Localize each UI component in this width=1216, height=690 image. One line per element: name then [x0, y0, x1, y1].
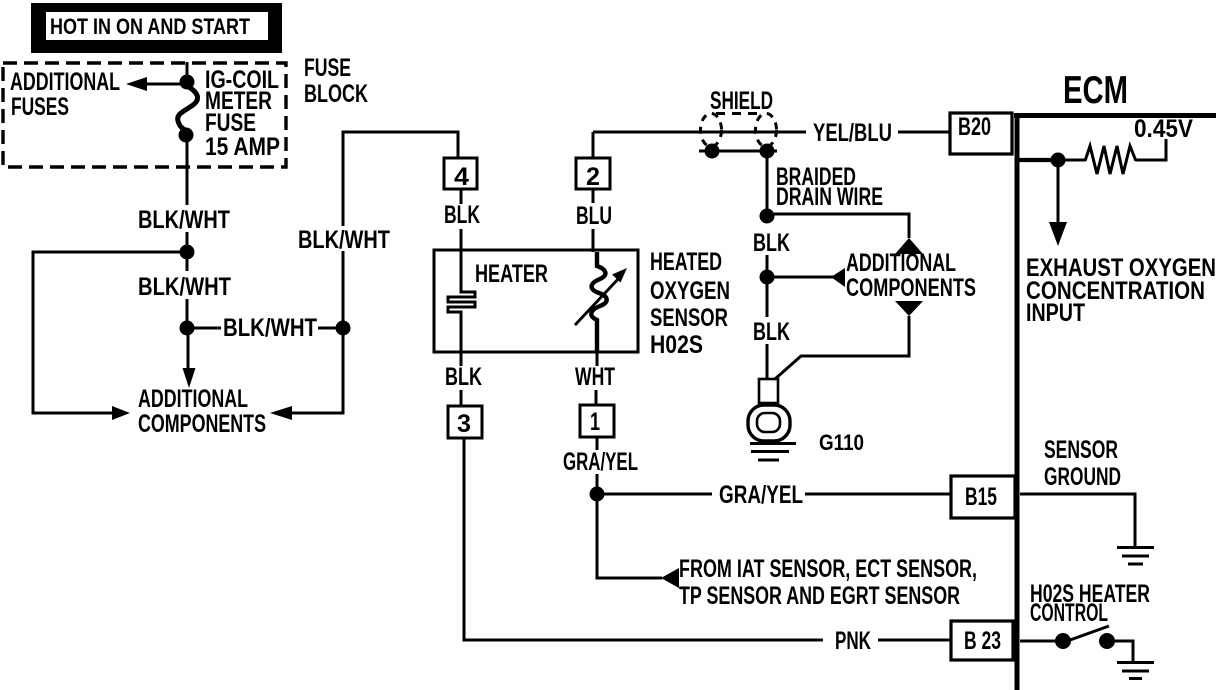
svg-text:SHIELD: SHIELD: [710, 87, 773, 115]
svg-text:B20: B20: [958, 113, 991, 141]
svg-text:BLU: BLU: [576, 202, 612, 230]
heater element: [448, 252, 475, 352]
svg-text:SENSOR: SENSOR: [650, 304, 728, 332]
svg-text:0.45V: 0.45V: [1134, 115, 1193, 143]
wire pin2 down: [592, 189, 595, 203]
arrow FROM IAT sensors: [661, 568, 679, 588]
svg-text:FROM IAT SENSOR, ECT SENSOR,: FROM IAT SENSOR, ECT SENSOR,: [679, 555, 977, 583]
label ADDITIONAL FUSES: [10, 68, 120, 121]
svg-text:YEL/BLU: YEL/BLU: [813, 119, 892, 147]
svg-text:ADDITIONAL: ADDITIONAL: [10, 68, 120, 96]
svg-text:B 23: B 23: [964, 627, 1001, 655]
wire drain lower: [766, 284, 769, 317]
svg-text:ADDITIONAL: ADDITIONAL: [846, 249, 956, 277]
svg-text:3: 3: [457, 410, 471, 438]
label BRAIDED DRAIN WIRE: [776, 163, 883, 211]
node junction 1: [180, 245, 195, 260]
wire heater left down: [460, 352, 463, 366]
svg-text:G110: G110: [819, 430, 864, 455]
svg-text:GROUND: GROUND: [1044, 463, 1121, 491]
label FUSE BLOCK: [304, 54, 368, 108]
ECM boundary line: [1014, 113, 1216, 690]
label IG-COIL METER FUSE 15 AMP: [205, 66, 280, 161]
shield drain bar: [699, 144, 777, 159]
wire PNK from pin 3: [464, 438, 823, 640]
wire to pin 1: [595, 390, 598, 405]
svg-text:FUSES: FUSES: [11, 93, 69, 121]
svg-text:FUSE: FUSE: [304, 54, 351, 82]
wire left loop: [33, 252, 182, 413]
arrow to additional fuses: [126, 77, 182, 91]
svg-text:CONTROL: CONTROL: [1030, 599, 1108, 627]
svg-text:2: 2: [586, 163, 600, 191]
svg-text:COMPONENTS: COMPONENTS: [846, 274, 976, 302]
svg-text:BLK: BLK: [444, 201, 480, 229]
arrow into drain junction 2: [831, 268, 845, 287]
label ADDITIONAL COMPONENTS (right): [846, 249, 976, 302]
wire switch to ground: [1115, 641, 1133, 661]
svg-text:BLK/WHT: BLK/WHT: [298, 226, 390, 254]
wire arrow exhaust oxygen input: [1049, 167, 1067, 246]
connector pin box 1: [580, 405, 614, 437]
connector pin box 3: [448, 406, 482, 438]
fuse block dashed box: [3, 63, 286, 167]
connector pin box 4: [444, 158, 477, 191]
node ECM junction: [1051, 153, 1066, 168]
heater box (HO2S): [434, 250, 638, 352]
wire pin2 up to YEL/BLU: [592, 132, 595, 158]
G110 ring terminal: [748, 405, 790, 441]
svg-text:COMPONENTS: COMPONENTS: [138, 410, 266, 438]
svg-text:BLK: BLK: [445, 363, 482, 391]
arrow into ADDITIONAL COMPONENTS (left): [112, 406, 130, 420]
svg-text:BLK/WHT: BLK/WHT: [138, 206, 230, 234]
ground G110: [750, 444, 796, 461]
wire drain mid: [766, 255, 769, 270]
label FROM IAT SENSOR, ECT SENSOR, TP SENSOR AND EGRT SENSOR: [679, 555, 977, 610]
node drain junction 1: [760, 209, 775, 224]
svg-text:ADDITIONAL: ADDITIONAL: [138, 385, 248, 413]
connector B23: [951, 621, 1013, 660]
wire inside ECM to resistor: [1019, 158, 1051, 162]
wire drain down: [766, 158, 769, 209]
arrow up from additional components: [895, 238, 923, 254]
svg-text:TP SENSOR AND EGRT SENSOR: TP SENSOR AND EGRT SENSOR: [679, 582, 960, 610]
wire down to FROM IAT arrow: [597, 501, 662, 578]
wire YEL/BLU left segment: [593, 131, 806, 134]
wire pin4 down: [460, 189, 463, 204]
label SENSOR GROUND: [1044, 436, 1121, 491]
connector pin box 2: [576, 158, 610, 191]
svg-text:15 AMP: 15 AMP: [205, 133, 280, 161]
wire fuse output down: [186, 142, 189, 205]
label ADDITIONAL COMPONENTS (left): [138, 385, 266, 438]
wire pin1 down: [596, 437, 599, 450]
wire PNK right segment: [878, 639, 951, 642]
svg-text:BLK: BLK: [753, 318, 790, 346]
label EXHAUST OXYGEN CONCENTRATION INPUT: [1026, 254, 1216, 327]
svg-text:HOT IN ON AND START: HOT IN ON AND START: [50, 14, 250, 39]
svg-text:GRA/YEL: GRA/YEL: [563, 448, 638, 476]
wire into heater box from pin2: [592, 229, 595, 252]
wire right of junction 2: [194, 327, 221, 330]
svg-text:PNK: PNK: [835, 627, 871, 655]
shield symbol dashed ellipses: [701, 114, 777, 147]
wire from additional components down to G110: [775, 316, 909, 379]
wire to junction: [596, 474, 599, 488]
svg-text:BLK/WHT: BLK/WHT: [138, 273, 231, 301]
sensor variable resistor: [575, 252, 627, 352]
wire drain branch to arrow: [774, 276, 834, 279]
ground sensor ground: [1117, 548, 1154, 565]
switch H02S heater control: [1055, 626, 1115, 649]
svg-text:ECM: ECM: [1063, 69, 1128, 112]
wire into heater box: [460, 229, 463, 252]
arrow into ADDITIONAL COMPONENTS right side: [270, 406, 292, 420]
wire to resistor: [1065, 159, 1085, 162]
svg-text:4: 4: [454, 163, 469, 191]
ground heater control: [1117, 663, 1154, 679]
wire to pin 3: [460, 390, 463, 406]
wire riser from fuse block to pin 4: [343, 132, 458, 226]
HOT IN ON AND START banner: [31, 3, 282, 53]
wire sensor ground: [1020, 494, 1135, 546]
node GRA/YEL junction: [590, 487, 605, 502]
wire drain to terminal: [766, 344, 769, 379]
wire below junction 1: [186, 258, 189, 271]
svg-text:1: 1: [590, 408, 600, 436]
connector B20: [950, 113, 1012, 154]
svg-text:HEATER: HEATER: [475, 260, 548, 288]
label H02S HEATER CONTROL: [1030, 580, 1150, 627]
wire from junction 3 down to arrow: [292, 335, 343, 413]
svg-text:OXYGEN: OXYGEN: [650, 277, 730, 305]
wire GRA/YEL left segment: [604, 493, 712, 496]
node drain junction 2: [760, 270, 775, 285]
wire riser lower part: [342, 251, 345, 321]
svg-text:SENSOR: SENSOR: [1044, 436, 1118, 464]
connector B15: [951, 476, 1015, 518]
resistor pull-up: [1085, 146, 1136, 174]
svg-text:DRAIN WIRE: DRAIN WIRE: [776, 183, 883, 211]
svg-text:WHT: WHT: [575, 363, 615, 391]
wire into junction 3: [318, 327, 337, 330]
node junction 3: [336, 321, 351, 336]
wire heater right down: [596, 352, 599, 366]
wire down arrow below junction 2: [183, 335, 196, 388]
wire to junction 2: [186, 299, 189, 321]
svg-text:BLOCK: BLOCK: [304, 80, 368, 108]
svg-text:GRA/YEL: GRA/YEL: [719, 481, 803, 509]
wire from banner into fuse: [186, 62, 189, 78]
G110 terminal connector: [759, 379, 778, 403]
svg-text:BLK: BLK: [753, 229, 790, 257]
wire GRA/YEL right segment to B15: [805, 493, 951, 496]
svg-text:H02S: H02S: [650, 331, 703, 359]
fuse F IG-COIL 15A: [178, 75, 198, 143]
svg-text:INPUT: INPUT: [1026, 299, 1085, 327]
wire drain branch right: [774, 214, 909, 238]
svg-text:HEATED: HEATED: [650, 248, 722, 276]
svg-text:BLK/WHT: BLK/WHT: [223, 314, 317, 342]
wire to junction: [186, 232, 189, 246]
node junction 2: [180, 321, 195, 336]
wire resistor to 0.45V: [1136, 139, 1166, 160]
wire B23 to switch: [1020, 640, 1056, 643]
wire YEL/BLU right segment: [898, 131, 950, 134]
arrow down to G110 branch: [895, 301, 923, 316]
svg-text:B15: B15: [965, 483, 997, 511]
label HEATED OXYGEN SENSOR H02S: [650, 248, 730, 359]
